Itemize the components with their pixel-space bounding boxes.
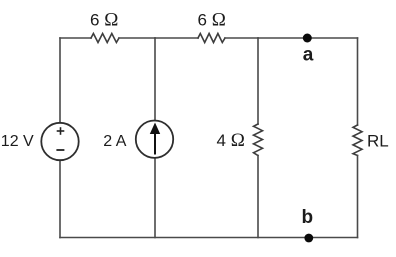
voltage source plus sign — [57, 127, 65, 135]
resistor R3 4 ohm (vertical zigzag) — [254, 124, 263, 156]
current source I1 circle — [136, 121, 173, 158]
wire: top rail between junction and R2 — [155, 37, 198, 39]
wire: middle rail lower (current source to bottom rail) — [154, 158, 156, 238]
wire: top rail from 4-ohm junction through node a to top-right corner — [258, 37, 358, 39]
wire: top rail left segment — [60, 37, 91, 39]
wire: right rail lower (RL to bottom-right corner) — [357, 156, 359, 238]
current source arrow (pointing up) — [150, 123, 160, 155]
svg-text:a: a — [303, 44, 314, 65]
wire: 4-ohm branch lower — [257, 156, 259, 238]
wire: 4-ohm branch upper — [257, 38, 259, 124]
svg-text:12 V: 12 V — [1, 133, 34, 150]
wire: top rail between R1 and middle junction — [119, 37, 155, 39]
voltage source minus sign — [56, 149, 64, 151]
resistor R1 6 ohm (top left, horizontal zigzag) — [91, 34, 119, 43]
wire: bottom rail — [60, 237, 358, 239]
svg-text:4 Ω: 4 Ω — [217, 130, 245, 151]
voltage source V1 circle — [41, 123, 78, 160]
svg-text:6 Ω: 6 Ω — [90, 9, 118, 30]
wire: top rail from R2 to 4-ohm junction — [225, 37, 258, 39]
wire: left rail lower (voltage source to bottom rail) — [59, 160, 61, 237]
node b dot — [304, 234, 313, 243]
wire: right rail upper (top-right corner to RL) — [357, 38, 359, 125]
resistor R2 6 ohm (top right, horizontal zigzag) — [198, 34, 225, 43]
svg-text:2 A: 2 A — [103, 133, 126, 150]
svg-text:RL: RL — [367, 131, 389, 150]
node a dot — [303, 34, 312, 43]
resistor RL (vertical zigzag) — [353, 125, 362, 156]
wire: left rail upper (top corner down to voltage source) — [59, 38, 61, 123]
svg-text:6 Ω: 6 Ω — [198, 9, 226, 30]
wire: middle rail upper (top junction down to current source) — [154, 38, 156, 121]
svg-text:b: b — [301, 207, 313, 228]
